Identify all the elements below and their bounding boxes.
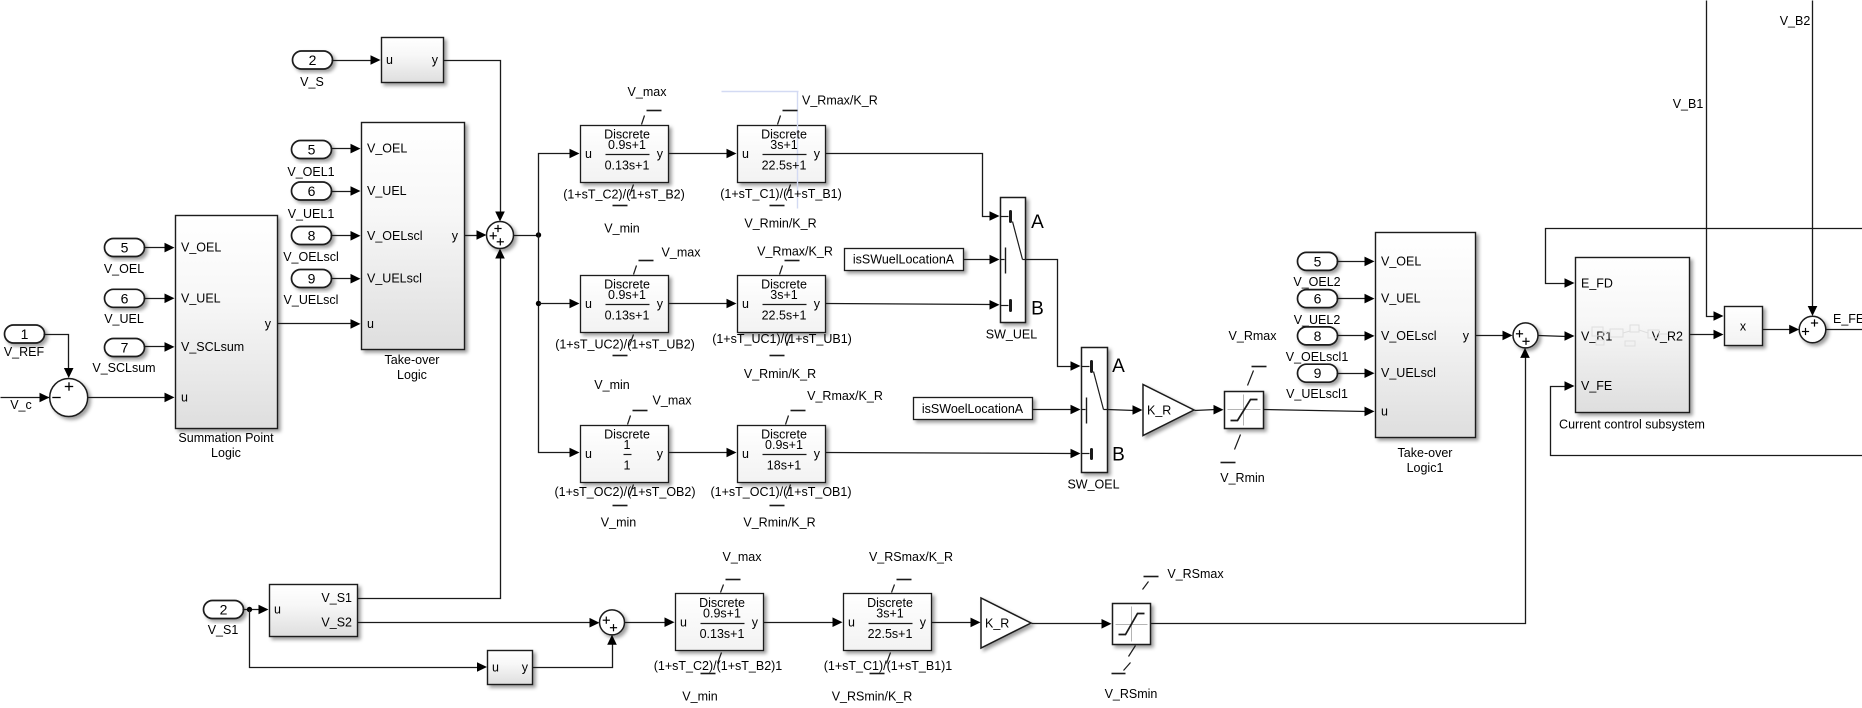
svg-text:V_OEL: V_OEL <box>1381 254 1421 268</box>
junction dot row2 branch <box>536 301 541 306</box>
svg-text:1: 1 <box>624 459 631 473</box>
svg-text:Take-over: Take-over <box>1398 446 1453 460</box>
svg-text:6: 6 <box>1314 291 1322 307</box>
svg-text:V_Rmin: V_Rmin <box>1220 471 1265 485</box>
limit marks above R2C1 <box>634 261 654 275</box>
svg-text:E_FE: E_FE <box>1833 312 1862 326</box>
svg-text:Logic1: Logic1 <box>1407 461 1444 475</box>
svg-text:K_R: K_R <box>1147 404 1171 418</box>
limit marks below BC1 <box>701 653 722 674</box>
wire port9 to TOL1 V_UELscl <box>1337 373 1367 375</box>
svg-text:y: y <box>657 147 664 161</box>
svg-text:V_OELscl1: V_OELscl1 <box>1286 350 1349 364</box>
transfer block R1C1 Discrete 0.9s+1/0.13s+1 <box>581 126 669 183</box>
svg-text:u: u <box>367 317 374 331</box>
wire saturation to Take-over Logic1 u <box>1264 410 1367 412</box>
limit marks above R2C2 <box>780 261 800 275</box>
sum S4 output E_FE <box>1799 316 1826 343</box>
svg-text:Current control subsystem: Current control subsystem <box>1559 418 1705 432</box>
svg-text:6: 6 <box>121 290 129 306</box>
limit marks saturation V_R <box>1221 367 1267 463</box>
svg-text:V_B2: V_B2 <box>1780 14 1811 28</box>
wire isSWuelLocationA to SW_UEL <box>964 259 992 261</box>
svg-text:V_SCLsum: V_SCLsum <box>92 361 155 375</box>
svg-text:isSWuelLocationA: isSWuelLocationA <box>853 253 955 267</box>
svg-text:V_OELscl: V_OELscl <box>1381 329 1437 343</box>
svg-text:y: y <box>452 229 459 243</box>
limit marks above R1C2 <box>778 111 798 125</box>
svg-text:(1+sT_OC1)/(1+sT_OB1): (1+sT_OC1)/(1+sT_OB1) <box>710 485 851 499</box>
wire port2 to V_S block <box>332 60 373 62</box>
svg-text:V_UELscl: V_UELscl <box>284 293 339 307</box>
wire sum S1 to Summation Point Logic u <box>88 397 167 399</box>
svg-text:y: y <box>432 53 439 67</box>
product block x <box>1725 307 1763 346</box>
wire R1C2 y to SW_UEL input A <box>826 154 992 217</box>
svg-text:5: 5 <box>121 240 129 256</box>
wire Take-over Logic y to sum S2 <box>465 235 479 237</box>
svg-text:u: u <box>742 147 749 161</box>
svg-text:(1+sT_OC2)/(1+sT_OB2): (1+sT_OC2)/(1+sT_OB2) <box>554 485 695 499</box>
subsystem Current control subsystem <box>1576 258 1690 413</box>
inport 9 V_UELscl1 <box>1298 364 1338 382</box>
svg-text:3s+1: 3s+1 <box>876 607 904 621</box>
transfer block BC2 Discrete 3s+1/22.5s+1 <box>844 594 932 651</box>
svg-text:A: A <box>1112 356 1125 377</box>
svg-text:B: B <box>1112 445 1125 466</box>
svg-text:V_OEL: V_OEL <box>181 241 221 255</box>
svg-text:V_OELscl: V_OELscl <box>367 229 423 243</box>
bottom sum BSum <box>600 610 625 635</box>
wire branch to row2 <box>539 303 572 305</box>
svg-text:5: 5 <box>1314 253 1322 269</box>
svg-text:u: u <box>742 297 749 311</box>
svg-text:V_OEL1: V_OEL1 <box>287 165 334 179</box>
wire V_c input <box>1 397 59 399</box>
svg-text:V_RSmax/K_R: V_RSmax/K_R <box>869 550 953 564</box>
svg-text:u: u <box>585 147 592 161</box>
svg-text:u: u <box>680 616 687 630</box>
svg-text:9: 9 <box>1314 365 1322 381</box>
svg-text:V_UEL2: V_UEL2 <box>1294 313 1341 327</box>
wire junction down to unit block <box>250 610 480 668</box>
wire R2C1 y to R2C2 u <box>669 303 729 305</box>
svg-text:(1+sT_UC1)/(1+sT_UB1): (1+sT_UC1)/(1+sT_UB1) <box>712 332 852 346</box>
switch SW_OEL <box>1082 348 1108 473</box>
svg-text:V_Rmax/K_R: V_Rmax/K_R <box>802 94 878 108</box>
wire port6 to TOL V_UEL <box>331 191 353 193</box>
svg-text:y: y <box>814 297 821 311</box>
wire bottom saturation up to sum S3 <box>1151 356 1526 624</box>
svg-text:V_OEL: V_OEL <box>104 262 144 276</box>
wire port8 to TOL V_OELscl <box>331 235 353 237</box>
svg-text:V_max: V_max <box>628 85 668 99</box>
wire port8 to TOL1 V_OELscl <box>1337 335 1367 337</box>
wire TOL1 y to sum S3 <box>1476 335 1505 337</box>
wire V_R2 to product block <box>1690 334 1716 336</box>
inport 2 V_S1 <box>204 601 244 619</box>
svg-text:9: 9 <box>308 271 316 287</box>
transfer block R1C2 Discrete 3s+1/22.5s+1 <box>722 92 826 209</box>
svg-text:(1+sT_C2)/(1+sT_B2): (1+sT_C2)/(1+sT_B2) <box>563 188 685 202</box>
svg-text:V_Rmax: V_Rmax <box>1229 329 1278 343</box>
limit marks above BC2 <box>892 580 912 593</box>
svg-text:3s+1: 3s+1 <box>770 138 798 152</box>
svg-text:V_Rmin/K_R: V_Rmin/K_R <box>743 516 815 530</box>
gain K_R bottom <box>981 598 1031 648</box>
limit marks below R2C2 <box>770 335 791 356</box>
sum S1 (V_REF - V_c) <box>50 379 88 417</box>
svg-text:u: u <box>585 447 592 461</box>
svg-text:8: 8 <box>1314 328 1322 344</box>
svg-text:8: 8 <box>308 228 316 244</box>
wire E_FD feedback from right edge <box>1546 229 1862 284</box>
transfer block R2C1 Discrete 0.9s+1/0.13s+1 <box>581 276 669 333</box>
svg-text:V_OELscl: V_OELscl <box>283 250 339 264</box>
svg-text:1: 1 <box>624 438 631 452</box>
constant isSWoelLocationA <box>914 398 1033 420</box>
svg-text:V_UEL: V_UEL <box>181 291 221 305</box>
svg-text:V_OEL2: V_OEL2 <box>1293 275 1340 289</box>
svg-text:(1+sT_C1)/(1+sT_B1)1: (1+sT_C1)/(1+sT_B1)1 <box>824 659 953 673</box>
inport 9 V_UELscl <box>292 270 332 288</box>
svg-text:V_min: V_min <box>682 690 717 704</box>
svg-text:0.9s+1: 0.9s+1 <box>765 438 803 452</box>
wire isSWoelLocationA to SW_OEL <box>1033 409 1073 411</box>
svg-text:2: 2 <box>309 52 317 68</box>
wire port5 to TOL1 V_OEL <box>1337 261 1367 263</box>
svg-text:V_UEL1: V_UEL1 <box>288 207 335 221</box>
wire V_S block y to sum S2 top <box>444 61 501 215</box>
svg-text:0.13s+1: 0.13s+1 <box>605 309 650 323</box>
limit marks below R3C1 <box>613 485 634 506</box>
wire V_S1 up to sum S2 bottom <box>358 257 501 599</box>
svg-text:y: y <box>1463 329 1470 343</box>
svg-text:y: y <box>657 297 664 311</box>
svg-text:u: u <box>386 53 393 67</box>
wire port5 to V_OEL <box>144 247 167 249</box>
svg-text:y: y <box>814 447 821 461</box>
wire unit block to bottom sum <box>533 643 613 668</box>
svg-text:B: B <box>1031 299 1044 320</box>
svg-text:V_UEL: V_UEL <box>367 184 407 198</box>
wire port5 to TOL V_OEL <box>331 148 353 150</box>
svg-text:V_SCLsum: V_SCLsum <box>181 340 244 354</box>
svg-text:V_FE: V_FE <box>1581 379 1612 393</box>
svg-text:V_Rmin/K_R: V_Rmin/K_R <box>744 367 816 381</box>
subsystem Summation Point Logic <box>176 216 278 429</box>
saturation V_RS limiter <box>1113 604 1151 645</box>
svg-text:5: 5 <box>308 142 316 158</box>
svg-text:V_Rmax/K_R: V_Rmax/K_R <box>757 245 833 259</box>
svg-text:x: x <box>1740 320 1747 334</box>
svg-text:u: u <box>274 603 281 617</box>
sum S3 before current control <box>1513 323 1538 348</box>
svg-text:V_UEL: V_UEL <box>104 312 144 326</box>
wire E_FE output to right edge <box>1826 329 1862 331</box>
limit marks below R1C1 <box>613 185 634 206</box>
limit marks below R2C1 <box>613 335 634 356</box>
svg-text:22.5s+1: 22.5s+1 <box>762 309 807 323</box>
svg-text:y: y <box>522 661 529 675</box>
svg-text:V_S1: V_S1 <box>208 623 239 637</box>
junction dot main branch <box>536 232 541 237</box>
svg-text:V_min: V_min <box>594 378 629 392</box>
svg-text:u: u <box>585 297 592 311</box>
wire port6 to TOL1 V_UEL <box>1337 298 1367 300</box>
svg-text:V_Rmin/K_R: V_Rmin/K_R <box>744 217 816 231</box>
svg-text:V_Rmax/K_R: V_Rmax/K_R <box>807 389 883 403</box>
wire BC1 y to BC2 u <box>764 622 835 624</box>
svg-text:V_R2: V_R2 <box>1652 329 1683 343</box>
limit marks above R3C1 <box>628 411 648 425</box>
inport 6 V_UEL <box>105 289 145 307</box>
svg-text:y: y <box>265 317 272 331</box>
svg-text:isSWoelLocationA: isSWoelLocationA <box>922 402 1024 416</box>
transfer block R3C1 Discrete 1/1 <box>581 426 669 483</box>
svg-text:V_max: V_max <box>723 550 763 564</box>
switch SW_UEL <box>1001 198 1026 323</box>
wire port2 to V_S1 splitter <box>243 609 261 611</box>
svg-text:22.5s+1: 22.5s+1 <box>762 159 807 173</box>
svg-text:u: u <box>742 447 749 461</box>
svg-text:u: u <box>1381 405 1388 419</box>
svg-text:Summation Point: Summation Point <box>178 431 274 445</box>
limit marks below R3C2 <box>770 485 791 506</box>
limit marks saturation V_RS <box>1112 577 1159 674</box>
svg-text:Logic: Logic <box>397 368 427 382</box>
svg-text:y: y <box>657 447 664 461</box>
inport 5 V_OEL1 <box>292 141 332 159</box>
svg-text:u: u <box>492 661 499 675</box>
svg-text:V_RSmax: V_RSmax <box>1167 567 1224 581</box>
svg-text:22.5s+1: 22.5s+1 <box>868 627 913 641</box>
wire V_FE feedback from right edge <box>1551 387 1862 456</box>
wire V_S2 to bottom sum <box>358 622 592 624</box>
wire sum S2 output to branch column <box>514 235 539 237</box>
subsystem Take-over Logic <box>362 123 465 350</box>
svg-text:A: A <box>1031 212 1044 233</box>
svg-text:V_S: V_S <box>300 75 324 89</box>
wire branch up to row1 <box>539 154 572 236</box>
wire R3C1 y to R3C2 u <box>669 452 729 454</box>
inport 1 V_REF <box>5 325 45 343</box>
inport 2 V_S <box>293 51 333 69</box>
limit marks above R3C2 <box>786 411 806 425</box>
svg-text:V_UELscl: V_UELscl <box>367 272 422 286</box>
svg-text:SW_OEL: SW_OEL <box>1067 478 1119 492</box>
svg-text:V_min: V_min <box>601 516 636 530</box>
limit marks above R1C1 <box>642 111 662 125</box>
wire BC2 y to gain K_R bottom <box>932 622 973 624</box>
svg-text:18s+1: 18s+1 <box>767 459 801 473</box>
svg-text:0.9s+1: 0.9s+1 <box>608 138 646 152</box>
svg-text:V_RSmin: V_RSmin <box>1105 687 1158 701</box>
constant isSWuelLocationA <box>845 249 964 271</box>
svg-text:3s+1: 3s+1 <box>770 288 798 302</box>
svg-text:E_FD: E_FD <box>1581 276 1613 290</box>
svg-text:7: 7 <box>121 340 129 356</box>
svg-text:(1+sT_C1)/(1+sT_B1): (1+sT_C1)/(1+sT_B1) <box>720 187 842 201</box>
wire branch down rows 2 and 3 <box>539 236 572 453</box>
subsystem unit block u y <box>488 651 533 685</box>
svg-text:y: y <box>920 616 927 630</box>
wire gain to bottom saturation <box>1032 623 1104 625</box>
svg-text:V_RSmin/K_R: V_RSmin/K_R <box>832 690 913 704</box>
subsystem V_S gain block <box>382 38 444 83</box>
wire R2C2 y to SW_UEL input B <box>826 304 992 305</box>
wire product to sum S4 <box>1763 329 1792 331</box>
svg-text:y: y <box>752 616 759 630</box>
wire R3C2 y to SW_OEL input B <box>826 453 1073 454</box>
svg-text:K_R: K_R <box>985 617 1009 631</box>
gain K_R main <box>1143 385 1194 436</box>
svg-text:0.9s+1: 0.9s+1 <box>703 607 741 621</box>
svg-text:V_UELscl1: V_UELscl1 <box>1286 387 1348 401</box>
wire V_B2 down to sum S4 <box>1812 1 1814 309</box>
thumbnail sketch inside current control subsystem <box>1592 325 1668 346</box>
svg-text:(1+sT_UC2)/(1+sT_UB2): (1+sT_UC2)/(1+sT_UB2) <box>555 338 695 352</box>
svg-text:y: y <box>814 147 821 161</box>
limit marks below BC2 <box>870 653 891 674</box>
transfer block BC1 Discrete 0.9s+1/0.13s+1 <box>676 594 764 651</box>
svg-text:6: 6 <box>308 183 316 199</box>
svg-text:V_c: V_c <box>10 398 32 412</box>
svg-text:V_max: V_max <box>662 246 702 260</box>
svg-text:Take-over: Take-over <box>385 353 440 367</box>
svg-text:V_max: V_max <box>653 394 693 408</box>
svg-text:u: u <box>848 616 855 630</box>
wire R1C1 y to R1C2 u <box>669 153 729 155</box>
svg-text:V_S2: V_S2 <box>321 616 352 630</box>
limit marks below R1C2 <box>770 185 791 206</box>
inport 6 V_UEL1 <box>292 182 332 200</box>
wire port7 to V_SCLsum <box>144 346 167 348</box>
inport 7 V_SCLsum <box>105 339 145 357</box>
junction dot V_S1 <box>247 607 252 612</box>
svg-text:(1+sT_C2)/(1+sT_B2)1: (1+sT_C2)/(1+sT_B2)1 <box>654 659 783 673</box>
subsystem V_S1 splitter block <box>270 585 358 637</box>
svg-text:Logic: Logic <box>211 446 241 460</box>
wire sum S3 to V_R1 <box>1539 336 1567 337</box>
wire port6 to V_UEL <box>144 298 167 300</box>
inport 8 V_OELscl1 <box>1298 327 1338 345</box>
subsystem Take-over Logic1 <box>1376 233 1476 438</box>
inport 6 V_UEL2 <box>1298 290 1338 308</box>
svg-text:SW_UEL: SW_UEL <box>986 328 1037 342</box>
wire bottom sum to BC1 <box>625 622 667 624</box>
svg-text:V_UEL: V_UEL <box>1381 292 1421 306</box>
svg-text:1: 1 <box>21 326 29 342</box>
wire K_R to saturation <box>1195 410 1216 411</box>
inport 5 V_OEL2 <box>1298 252 1338 270</box>
wire SW_OEL output to gain K_R <box>1108 410 1135 411</box>
svg-text:2: 2 <box>220 602 228 618</box>
svg-text:V_REF: V_REF <box>4 345 45 359</box>
svg-text:V_B1: V_B1 <box>1673 97 1704 111</box>
sum S2 (three plus inputs) <box>487 222 514 249</box>
saturation V_R limiter <box>1225 392 1264 429</box>
svg-text:V_min: V_min <box>604 222 639 236</box>
svg-text:u: u <box>181 391 188 405</box>
svg-text:V_S1: V_S1 <box>321 591 352 605</box>
wire V_B1 down to product block <box>1707 1 1716 317</box>
limit marks above BC1 <box>721 580 741 593</box>
svg-text:0.9s+1: 0.9s+1 <box>608 288 646 302</box>
svg-text:V_OEL: V_OEL <box>367 142 407 156</box>
wire SW_UEL output to SW_OEL input A <box>1026 260 1073 367</box>
transfer block R2C2 Discrete 3s+1/22.5s+1 <box>738 276 826 333</box>
transfer block R3C2 Discrete 0.9s+1/18s+1 <box>738 426 826 483</box>
wire SPL y to Take-over Logic u <box>278 323 353 325</box>
wire V_REF to sum <box>44 335 69 372</box>
svg-text:0.13s+1: 0.13s+1 <box>605 159 650 173</box>
inport 5 V_OEL <box>105 239 145 257</box>
inport 8 V_OELscl <box>292 227 332 245</box>
wire port9 to TOL V_UELscl <box>331 278 353 280</box>
svg-text:0.13s+1: 0.13s+1 <box>700 627 745 641</box>
svg-text:V_UELscl: V_UELscl <box>1381 366 1436 380</box>
